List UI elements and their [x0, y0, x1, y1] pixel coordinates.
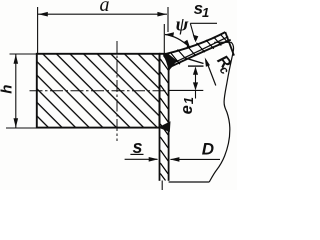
break line curve (part outline break): [209, 42, 233, 182]
flange section hatch ticks: [171, 35, 228, 64]
horizontal centerline of die: [30, 90, 168, 92]
vertical centerline of die: [116, 41, 118, 141]
Rc leader with arrowhead: [206, 60, 216, 86]
short reference line under flange (horizontal): [188, 65, 204, 67]
e1 reference line (solid, right of wall): [169, 89, 204, 91]
svg-text:a: a: [100, 0, 110, 16]
wall section hatch: [160, 59, 168, 181]
svg-text:e: e: [178, 105, 196, 114]
corner junction fill at die bottom edge: [158, 121, 171, 132]
svg-text:1: 1: [181, 97, 196, 104]
flange middle hatch line: [173, 37, 228, 64]
axis line below wall: [161, 181, 163, 191]
sheet wall outer face: [168, 70, 170, 181]
flange lower surface with bend arc: [169, 40, 231, 71]
svg-text:D: D: [202, 140, 214, 159]
flange end cut: [225, 32, 234, 56]
dimension e1 (double arrow): [193, 67, 198, 99]
svg-text:h: h: [0, 85, 15, 94]
flange upper surface: [165, 32, 225, 54]
short reference line under flange (slanted): [185, 58, 204, 64]
sheet wall inner face: [159, 54, 161, 181]
svg-text:1: 1: [202, 5, 209, 20]
dimension a (line, arrowheads, extension lines): [38, 7, 168, 54]
part bottom face line: [169, 181, 210, 183]
s1 leader with arrowhead: [190, 23, 217, 40]
bend filled mass: [163, 53, 177, 70]
die top edge extension to bend: [159, 53, 166, 55]
die block (hatched section): [37, 54, 160, 128]
dimension h (line, arrowheads, extension lines): [6, 54, 37, 128]
psi datum vertical line: [163, 24, 165, 53]
svg-text:ψ: ψ: [176, 14, 189, 35]
dimension s leader line with arrowhead: [125, 158, 158, 160]
psi angle arc with arrowheads: [165, 35, 190, 48]
dimension D leader line with arrowhead: [171, 158, 221, 160]
